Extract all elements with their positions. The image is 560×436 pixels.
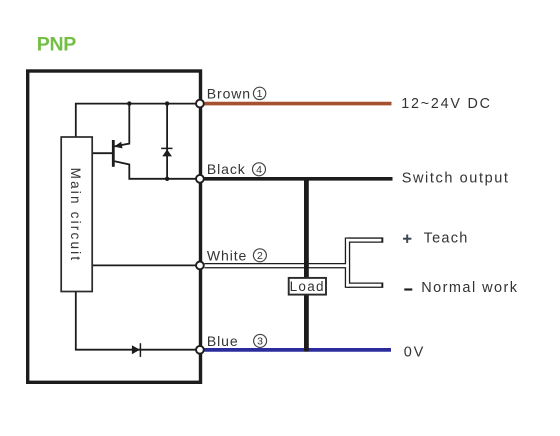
svg-text:Black: Black	[207, 161, 246, 177]
svg-text:12~24V DC: 12~24V DC	[401, 96, 492, 112]
svg-text:White: White	[207, 247, 247, 263]
svg-text:Switch output: Switch output	[402, 170, 510, 186]
svg-text:Normal work: Normal work	[421, 280, 518, 296]
svg-text:Blue: Blue	[207, 333, 239, 349]
svg-text:2: 2	[257, 250, 263, 262]
svg-text:PNP: PNP	[37, 34, 76, 56]
svg-text:Brown: Brown	[207, 86, 251, 102]
svg-text:1: 1	[257, 88, 263, 100]
svg-text:Main circuit: Main circuit	[68, 168, 83, 263]
svg-text:3: 3	[257, 335, 263, 347]
svg-text:Load: Load	[290, 279, 325, 294]
svg-text:0V: 0V	[404, 345, 425, 361]
svg-text:Teach: Teach	[424, 231, 469, 247]
svg-text:4: 4	[256, 164, 262, 176]
